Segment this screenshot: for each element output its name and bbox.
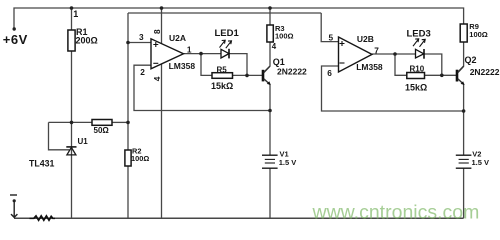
svg-text:Q1: Q1: [273, 57, 285, 67]
svg-text:U2A: U2A: [169, 33, 186, 43]
svg-text:U2B: U2B: [357, 34, 374, 44]
svg-text:100Ω: 100Ω: [275, 31, 294, 40]
resistor R10 15k: [407, 73, 425, 79]
LED LED3: [407, 29, 431, 59]
wire Q2 collector to R9: [458, 42, 464, 73]
svg-text:Q2: Q2: [465, 55, 477, 65]
svg-text:2: 2: [140, 67, 145, 77]
zigzag on common rail: [30, 216, 56, 220]
resistor R9 100 ohm: [460, 24, 467, 42]
wire Q2 emitter to V2: [463, 85, 465, 156]
wire TL431 ref loop: [49, 122, 70, 149]
svg-text:U1: U1: [78, 137, 89, 146]
wire R1 branch vertical: [71, 8, 73, 30]
svg-text:1.5 V: 1.5 V: [472, 158, 490, 167]
terminal +6V: [13, 27, 16, 30]
resistor R5 15k: [212, 73, 233, 79]
svg-text:4: 4: [152, 76, 162, 81]
svg-text:LED1: LED1: [215, 28, 240, 39]
svg-text:7: 7: [374, 45, 379, 55]
battery V2 1.5V: [456, 155, 472, 168]
svg-text:4: 4: [272, 42, 277, 51]
svg-text:LM358: LM358: [356, 62, 383, 72]
battery V1 1.5V: [262, 155, 278, 168]
wire U2A pin4 ground: [161, 63, 163, 218]
wire reference net top (box): [128, 12, 321, 14]
resistor R3 100 ohm: [267, 25, 273, 42]
svg-text:5: 5: [329, 33, 334, 43]
transistor Q2 2N2222: [457, 55, 500, 85]
svg-text:15kΩ: 15kΩ: [211, 81, 233, 91]
svg-text:R5: R5: [217, 65, 228, 74]
svg-text:100Ω: 100Ω: [131, 154, 149, 163]
wire U2B output node: [372, 53, 416, 55]
svg-text:LED3: LED3: [407, 29, 431, 40]
wire U2A pin3 input: [128, 42, 151, 44]
svg-text:8: 8: [152, 29, 162, 34]
terminal minus / common arrow: [10, 195, 17, 217]
wire Q1 emitter to V1: [269, 85, 271, 156]
svg-text:1.5 V: 1.5 V: [279, 158, 297, 167]
wire U2A pin8 supply: [161, 8, 163, 45]
shunt regulator U1 TL431: [29, 137, 88, 168]
resistor 50 ohm: [92, 120, 112, 126]
op-amp U2A LM358: [139, 29, 195, 81]
svg-text:2N2222: 2N2222: [470, 67, 500, 77]
svg-text:1: 1: [187, 44, 192, 54]
wire 50-ohm horizontal: [49, 121, 93, 123]
svg-text:LM358: LM358: [169, 61, 196, 71]
svg-text:50Ω: 50Ω: [94, 126, 110, 135]
svg-text:6: 6: [327, 68, 332, 78]
LED LED1: [215, 28, 240, 58]
wire Q1 collector to R3: [264, 42, 271, 73]
wire U2A pin2 feedback: [134, 65, 270, 110]
transistor Q1 2N2222: [263, 57, 307, 85]
wire U2B pin6 feedback: [322, 66, 464, 111]
svg-text:3: 3: [139, 32, 144, 42]
svg-text:200Ω: 200Ω: [76, 36, 98, 46]
wire U2A output node: [184, 53, 222, 55]
svg-text:R10: R10: [410, 65, 425, 74]
wire U2B pin5 input: [321, 13, 338, 42]
svg-text:100Ω: 100Ω: [469, 30, 488, 39]
svg-text:www.cntronics.com: www.cntronics.com: [312, 201, 480, 223]
svg-text:15kΩ: 15kΩ: [405, 83, 427, 93]
svg-text:1: 1: [73, 9, 78, 19]
resistor R2 100 ohm: [125, 150, 131, 166]
junction node dots: [70, 6, 466, 124]
wire bottom common rail: [14, 217, 464, 219]
svg-text:TL431: TL431: [29, 158, 55, 168]
resistor R1 200 ohm: [68, 30, 75, 51]
svg-text:2N2222: 2N2222: [277, 66, 307, 76]
wire +6V top rail: [14, 8, 464, 28]
op-amp U2B LM358: [327, 33, 383, 79]
svg-text:+6V: +6V: [3, 32, 28, 47]
